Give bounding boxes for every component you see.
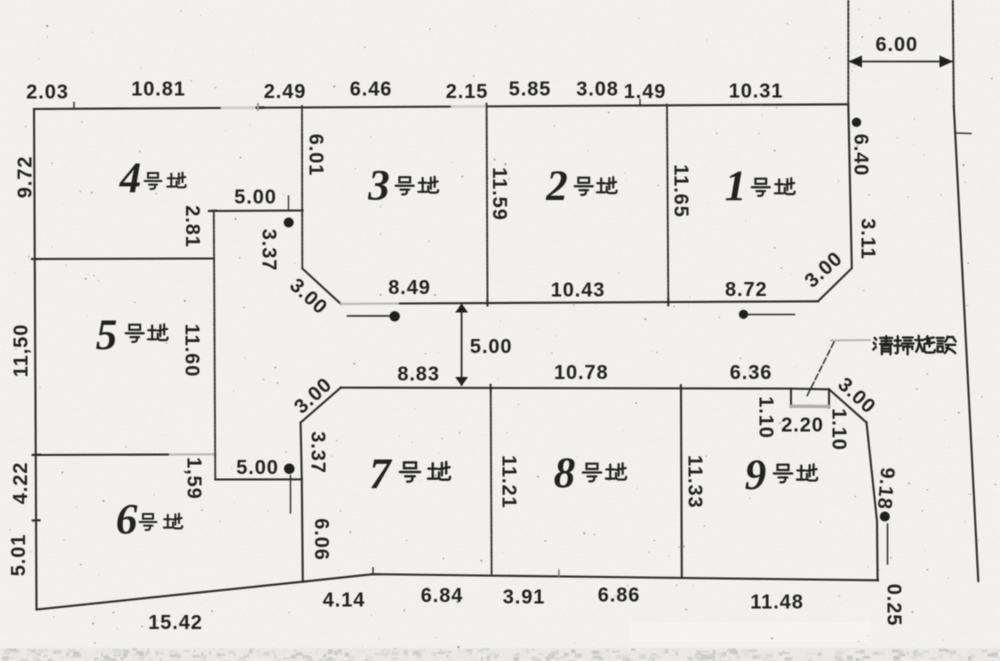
lot5/6 boundary <box>36 453 170 456</box>
lot1/2 boundary <box>667 105 668 302</box>
lot1 survey pointer <box>748 314 795 316</box>
cleaning facility leader dash <box>831 339 870 342</box>
lot7/8 boundary <box>490 388 493 576</box>
tick mid jog left end <box>209 210 216 213</box>
lot6 survey pointer <box>290 476 292 514</box>
tick row2top lot78 <box>490 385 492 391</box>
tick top 2.03 <box>73 103 75 109</box>
lot1 survey dot <box>739 310 748 319</box>
tick left 4/5 <box>32 258 40 260</box>
lot2/3 boundary <box>486 104 489 303</box>
tick mid row1bottom lot12 <box>667 299 669 306</box>
6.00 road width arrow <box>850 61 952 63</box>
cleaning facility leader <box>807 342 834 396</box>
lot4 survey pointer <box>288 196 290 211</box>
lot9 survey dot <box>880 512 890 522</box>
lot7 left boundary upper <box>301 423 302 480</box>
lot1 survey dot 6.40 <box>852 118 861 127</box>
lot9 corner diagonal 3.00 <box>829 389 867 422</box>
lot6 5.00 jog line <box>215 478 301 480</box>
lot4/5 boundary <box>36 257 214 260</box>
tick top 1.49 <box>639 100 641 107</box>
left boundary line <box>34 109 37 610</box>
tick left 5/6 <box>33 454 40 456</box>
row2 top boundary <box>341 388 829 390</box>
tick bottom 4.14/6.84 <box>372 568 374 575</box>
lot3 corner diagonal 3.00 <box>302 269 341 304</box>
lot5/6 boundary faded part <box>170 453 215 455</box>
cleaning facility rect left <box>790 389 792 407</box>
road east tick <box>955 132 971 135</box>
road east edge lower <box>954 106 979 581</box>
cleaning facility rect right <box>828 389 830 407</box>
bottom scan band <box>0 648 1000 661</box>
lot7 corner diagonal 3.00 <box>301 388 341 423</box>
lot3 left boundary <box>301 106 303 269</box>
tick mid row1bottom lot23 <box>486 299 488 306</box>
tick left 4.22/5.01 <box>33 519 40 521</box>
cleaning facility label <box>873 336 892 354</box>
5.00 road width arrow <box>461 305 463 385</box>
lot6 survey dot <box>284 464 295 475</box>
row1 bottom boundary <box>400 301 818 303</box>
lot3 survey pointer <box>348 315 390 317</box>
lot8/9 boundary <box>680 388 683 577</box>
top line faded segment a <box>222 106 256 109</box>
lot4 survey dot <box>284 218 294 228</box>
lot3 survey dot <box>390 311 400 321</box>
lot5 right boundary vertical <box>214 211 216 480</box>
lot1 right boundary <box>818 104 852 301</box>
road east edge upper <box>953 0 954 106</box>
tick top 10.81 gray <box>257 104 259 110</box>
row1 bottom boundary faded part <box>341 302 400 304</box>
lot6/7 boundary <box>302 479 303 581</box>
top boundary line <box>34 104 848 109</box>
bottom boundary line <box>37 574 879 609</box>
tick bottom 3.91/6.86 <box>558 570 560 577</box>
lot9 right boundary <box>867 423 878 581</box>
top line faded segment b <box>452 105 485 108</box>
tick row2top lot89 <box>680 385 682 391</box>
road west edge above tract <box>847 0 849 104</box>
cleaning facility rect bottom gray <box>791 405 829 409</box>
lot9 survey pointer <box>887 524 889 564</box>
lot4 5.00 jog line <box>213 209 303 212</box>
top line dark dot at 258 <box>257 106 263 109</box>
